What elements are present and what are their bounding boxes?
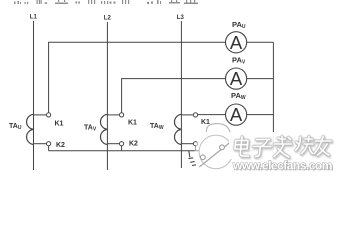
ammeter PA_W xyxy=(226,104,247,125)
stem TA_V K2 to bus xyxy=(121,146,123,151)
CT TA_V tap wires xyxy=(107,114,119,116)
svg-text:www.elecfans.com: www.elecfans.com xyxy=(232,159,332,173)
svg-text:K1: K1 xyxy=(128,119,137,126)
svg-text:K2: K2 xyxy=(129,141,138,148)
CT TA_U tap wires xyxy=(34,114,47,116)
wire ammeter PA_V right to bus xyxy=(247,78,274,80)
wire ammeter PA_W right to bus xyxy=(247,114,274,116)
svg-text:A: A xyxy=(230,32,243,53)
wire ammeter PA_U right to bus xyxy=(247,41,274,43)
CT TA_W primary coil xyxy=(174,114,181,144)
svg-text:K2: K2 xyxy=(56,142,65,149)
CT TA_V terminal K2 xyxy=(120,142,124,146)
stem TA_U K2 to bus xyxy=(48,146,50,151)
svg-text:TAU: TAU xyxy=(9,123,22,131)
phase line L1 xyxy=(33,21,35,170)
svg-text:PAW: PAW xyxy=(231,91,246,101)
phase line L2 xyxy=(106,22,108,170)
wire row1 from TA_U K1 to ammeter PA_U xyxy=(49,42,226,113)
watermark text 电子发烧友 xyxy=(229,132,341,159)
svg-text:A: A xyxy=(230,68,243,89)
CT TA_W terminal K1 xyxy=(193,113,197,117)
wire row2 from TA_V K1 to ammeter PA_V xyxy=(122,79,226,113)
ammeter PA_V xyxy=(226,68,247,89)
right return bus xyxy=(272,42,274,150)
svg-text:A: A xyxy=(230,104,243,125)
svg-text:L1: L1 xyxy=(30,14,38,20)
wire row3 from TA_W K1 to ammeter PA_W xyxy=(198,114,226,116)
CT TA_V terminal K1 xyxy=(120,113,124,117)
ground xyxy=(188,151,196,166)
CT TA_U primary coil xyxy=(27,114,34,144)
svg-text:TAV: TAV xyxy=(84,125,97,133)
stem TA_W K2 to bus xyxy=(195,146,197,151)
ammeter PA_U xyxy=(226,32,247,53)
CT TA_U terminal K2 xyxy=(47,142,51,146)
svg-text:K1: K1 xyxy=(55,120,64,127)
svg-text:K1: K1 xyxy=(201,119,210,126)
common K2 bus xyxy=(49,150,274,152)
cropped caption text row xyxy=(14,0,198,4)
CT TA_W tap wires xyxy=(181,114,193,116)
phase line L3 xyxy=(180,21,182,168)
CT TA_V primary coil xyxy=(100,114,107,144)
svg-text:TAW: TAW xyxy=(150,123,164,131)
svg-text:L2: L2 xyxy=(104,15,112,21)
CT TA_U terminal K1 xyxy=(47,113,51,117)
CT TA_W terminal K2 xyxy=(193,142,197,146)
svg-text:PAV: PAV xyxy=(232,56,246,66)
svg-text:L3: L3 xyxy=(177,15,185,21)
svg-text:PAU: PAU xyxy=(232,20,246,30)
watermark elecfans logo xyxy=(194,124,237,174)
